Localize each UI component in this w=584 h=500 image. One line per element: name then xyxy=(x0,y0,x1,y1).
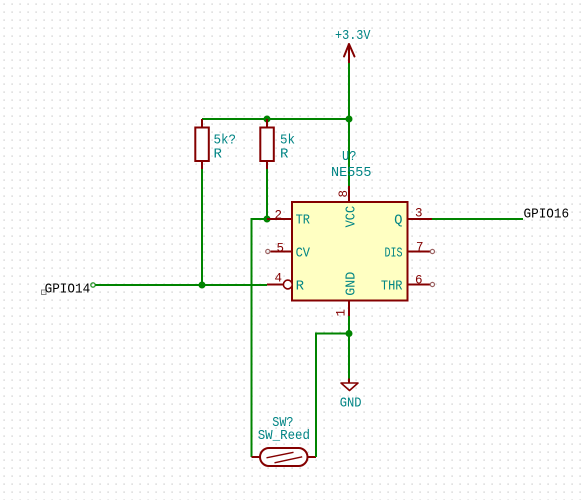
wire GPIO14 to pin 4 xyxy=(95,284,267,286)
resistor R2 body xyxy=(260,128,274,162)
pin 6 THR stub xyxy=(408,284,430,286)
svg-text:THR: THR xyxy=(381,279,403,295)
svg-text:GPIO16: GPIO16 xyxy=(524,207,570,223)
svg-text:GPIO14: GPIO14 xyxy=(45,282,91,298)
svg-text:CV: CV xyxy=(296,246,311,262)
pin 6 open end circle xyxy=(430,282,434,286)
wire R1 bottom to GPIO14 net xyxy=(201,169,203,285)
svg-text:R: R xyxy=(296,279,305,295)
wire GPIO14 open end circle xyxy=(91,283,95,287)
svg-text:6: 6 xyxy=(415,274,423,288)
svg-text:SW_Reed: SW_Reed xyxy=(258,428,310,444)
wire pin 3 to GPIO16 xyxy=(432,218,523,220)
svg-text:7: 7 xyxy=(416,241,424,255)
op-amp U1 NE555 body xyxy=(292,202,408,301)
ground symbol triangle xyxy=(341,383,358,391)
junction GPIO14 at R1 xyxy=(199,282,206,289)
label GPIO14 anchor square xyxy=(42,290,47,295)
wire switch right to GND net xyxy=(316,334,349,458)
svg-text:R: R xyxy=(280,146,289,162)
svg-text:3: 3 xyxy=(415,207,423,221)
pin 4 R stub xyxy=(267,284,284,286)
svg-text:5: 5 xyxy=(276,242,284,256)
svg-text:TR: TR xyxy=(296,213,311,229)
wire pin 1 to GND symbol xyxy=(348,316,350,379)
switch SW1 body capsule xyxy=(260,448,308,466)
svg-text:1: 1 xyxy=(335,309,349,317)
junction top rail at R1 xyxy=(264,116,271,123)
svg-text:GND: GND xyxy=(340,395,362,411)
svg-text:GND: GND xyxy=(343,272,359,296)
pin 5 open end circle xyxy=(266,249,270,253)
svg-text:2: 2 xyxy=(274,209,282,223)
pin 3 Q stub xyxy=(408,218,432,220)
svg-text:DIS: DIS xyxy=(385,246,403,262)
resistor R1 body xyxy=(195,128,209,162)
svg-text:8: 8 xyxy=(337,190,351,198)
resistor R2 pins xyxy=(266,119,268,169)
junction at pin 2 xyxy=(264,216,271,223)
wire top rail horizontal xyxy=(202,118,349,120)
pin 5 CV stub xyxy=(271,251,293,253)
power symbol +3.3V arrow xyxy=(344,44,355,63)
wire pin 2 branch to switch left xyxy=(252,219,268,457)
switch SW1 reed blade 1 xyxy=(267,452,294,458)
ground symbol stem xyxy=(348,379,350,384)
svg-text:VCC: VCC xyxy=(343,206,359,228)
pin 4 inversion bubble xyxy=(283,280,292,289)
resistor R1 pins xyxy=(201,119,203,169)
svg-text:NE555: NE555 xyxy=(331,165,372,181)
pin 8 VCC stub xyxy=(348,186,350,202)
svg-text:R: R xyxy=(214,146,223,162)
pin 1 GND stub xyxy=(348,301,350,317)
switch SW1 reed blade 2 xyxy=(275,457,303,463)
junction GND net xyxy=(346,330,353,337)
svg-text:U?: U? xyxy=(342,149,357,165)
svg-text:+3.3V: +3.3V xyxy=(335,28,371,44)
svg-text:4: 4 xyxy=(274,272,282,286)
pin 7 open end circle xyxy=(430,249,434,253)
svg-text:Q: Q xyxy=(394,213,402,229)
junction top rail at power xyxy=(346,116,353,123)
pin 2 TR stub xyxy=(267,218,292,220)
wire +3.3V to top rail and pin 8 xyxy=(348,63,350,186)
wire R2 bottom to pin 2 xyxy=(266,169,268,219)
pin 7 DIS stub xyxy=(408,251,430,253)
switch SW1 right pin xyxy=(308,456,317,458)
switch SW1 left pin xyxy=(252,456,261,458)
